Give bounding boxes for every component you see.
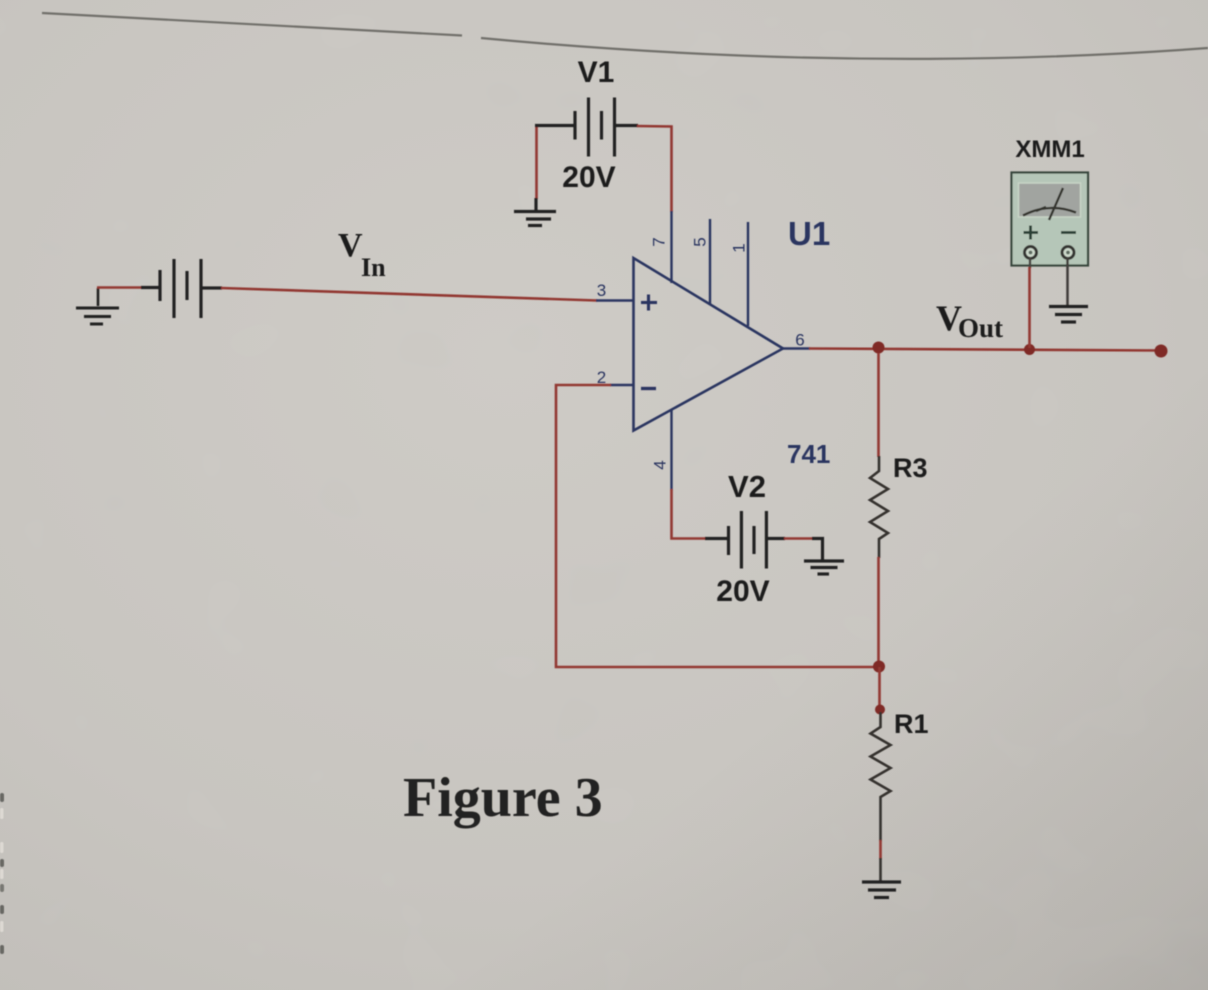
ground (below V1)	[514, 198, 556, 226]
page edge line (left segment)	[42, 13, 462, 36]
svg-text:V2: V2	[728, 469, 766, 504]
wire: V1 negative lead to ground	[535, 126, 538, 200]
node V_Out label	[936, 298, 1003, 343]
pin 1 stub	[747, 222, 749, 326]
svg-text:In: In	[361, 253, 386, 282]
pin 4 stub	[670, 409, 672, 490]
svg-text:Out: Out	[958, 313, 1003, 343]
op-amp plus input marking	[641, 295, 657, 311]
battery V1	[535, 98, 638, 157]
multimeter gauge arc	[1023, 188, 1076, 220]
pin number 4	[650, 460, 669, 469]
label 20V (V1 value)	[562, 161, 615, 194]
multimeter XMM1 body	[1012, 173, 1089, 266]
wire: feedback from pin 2 down and right	[556, 385, 879, 667]
svg-text:6: 6	[795, 331, 804, 350]
wire: R1 to ground	[879, 840, 882, 859]
node: R1 top terminal dot	[875, 705, 885, 715]
pin 6 stub	[783, 347, 810, 349]
pin 3 stub	[596, 299, 633, 301]
wire: op-amp output V_Out net	[809, 349, 1161, 351]
pin 7 stub	[670, 211, 672, 283]
op-amp U1	[634, 258, 784, 431]
ground (V2)	[804, 539, 844, 575]
battery (V_In source)	[141, 259, 222, 318]
wire: ground to input source	[97, 286, 160, 289]
label V1	[578, 56, 615, 89]
junction: output / XMM1	[1024, 344, 1035, 355]
multimeter minus terminal marking	[1061, 231, 1076, 234]
label R3	[893, 453, 928, 483]
label XMM1	[1015, 136, 1084, 163]
svg-text:7: 7	[649, 237, 668, 246]
junction: feedback / R3 / R1	[873, 661, 885, 673]
wire: junction to R1	[878, 667, 881, 706]
pin number 2	[597, 368, 606, 387]
svg-text:20V: 20V	[716, 575, 769, 608]
battery V2	[705, 511, 785, 569]
ground (below R1)	[862, 882, 901, 898]
svg-text:V: V	[338, 227, 363, 264]
svg-text:3: 3	[597, 281, 606, 300]
svg-text:5: 5	[690, 237, 709, 246]
wire: R3 to feedback junction	[877, 557, 880, 662]
label U1	[788, 215, 830, 252]
svg-text:V1: V1	[578, 56, 615, 89]
multimeter minus terminal post	[1062, 247, 1074, 259]
pin 5 stub	[709, 219, 711, 305]
pin number 6	[795, 331, 804, 350]
wire: V1 positive lead to op-amp pin 7	[637, 126, 672, 212]
resistor R3	[870, 456, 888, 558]
svg-text:U1: U1	[788, 215, 830, 252]
wire: junction to R3	[877, 353, 880, 457]
svg-text:20V: 20V	[562, 161, 615, 194]
label V2	[728, 469, 766, 504]
pin number 5	[690, 237, 709, 246]
ground (input source)	[76, 288, 119, 324]
wire: V2 to ground	[784, 537, 816, 540]
wire: XMM1 minus terminal to ground	[1066, 258, 1069, 306]
wire: pin 4 to V2	[672, 489, 707, 539]
label 20V (V2 value)	[716, 575, 769, 608]
multimeter plus terminal marking	[1024, 226, 1039, 240]
wire: V_In to op-amp pin 3	[221, 288, 597, 301]
svg-text:R1: R1	[894, 709, 929, 739]
pin number 7	[649, 237, 668, 246]
op-amp minus input marking	[641, 387, 656, 390]
svg-text:R3: R3	[893, 453, 928, 483]
pin number 3	[597, 281, 606, 300]
caption Figure 3	[403, 767, 603, 829]
label 741	[787, 439, 830, 469]
pin 2 stub	[610, 384, 633, 386]
multimeter plus terminal post	[1025, 247, 1037, 259]
node: wire end dot	[1155, 345, 1168, 358]
left page-edge marks	[0, 793, 4, 954]
label R1	[894, 709, 929, 739]
wire: XMM1 plus terminal to V_Out	[1028, 258, 1031, 348]
svg-text:XMM1: XMM1	[1015, 136, 1084, 163]
ground stub (bottom)	[879, 858, 882, 881]
svg-text:Figure 3: Figure 3	[403, 767, 603, 829]
junction: output / R3	[873, 342, 885, 354]
svg-text:741: 741	[787, 439, 830, 469]
pin number 1	[729, 243, 748, 252]
page edge line (right segment)	[481, 38, 1208, 59]
ground (XMM1)	[1049, 307, 1088, 323]
svg-text:1: 1	[729, 243, 748, 252]
resistor R1	[871, 712, 891, 841]
node V_In label	[338, 227, 386, 282]
svg-text:4: 4	[650, 460, 669, 469]
